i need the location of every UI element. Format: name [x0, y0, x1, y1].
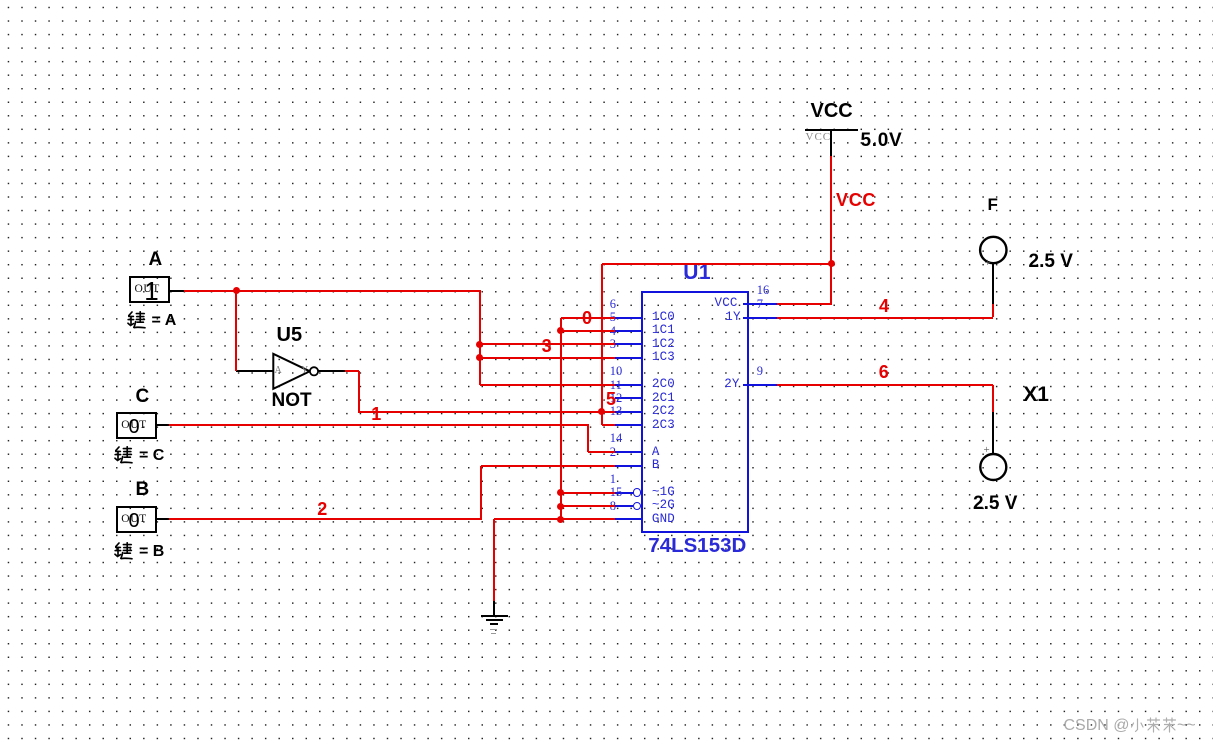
pin 12 stub (2C2)	[615, 411, 644, 413]
switch A label	[149, 250, 163, 269]
pin number 11	[610, 379, 622, 392]
U5 output pin letter Y	[301, 366, 308, 376]
wire net0: to pin ~1G	[561, 492, 615, 494]
wire net1: U5 output run	[345, 370, 360, 372]
value 5.0V	[861, 131, 903, 150]
pin label 2C1	[652, 392, 675, 405]
U5 input pin letter A	[275, 366, 282, 376]
wire net3: vertical to 2C0	[479, 291, 481, 385]
net number 2	[317, 500, 327, 518]
pin 15 stub (~2G)	[615, 505, 633, 507]
pin 14 stub (A)	[615, 451, 644, 453]
switch C output stub	[156, 424, 169, 426]
wire VCC net: top run	[602, 263, 833, 265]
pin number 1	[610, 473, 616, 486]
junction VCC net	[828, 260, 835, 267]
probe X1 label	[1023, 384, 1049, 405]
pin label ~1G	[652, 486, 675, 499]
switch C key caption (jian = C)	[114, 446, 133, 465]
wire VCC net: riser left of chip	[601, 264, 603, 426]
switch A output stub	[170, 290, 184, 292]
wire VCC net: to pin 16	[777, 303, 833, 305]
switch A key caption (jian = A)	[127, 311, 146, 330]
switch B box	[116, 506, 157, 533]
pin number 7	[757, 298, 763, 311]
pin number 13	[610, 405, 623, 418]
junction net0 at 1C1	[557, 327, 564, 334]
wire net0: ground to pin GND	[494, 518, 615, 520]
pin 10 stub (2C0)	[615, 384, 644, 386]
ground tiny net mark	[490, 629, 497, 630]
wire net3: branch down to U5 input	[235, 291, 237, 372]
pin label 1C3	[652, 351, 675, 364]
pin label 1Y	[725, 311, 740, 324]
wire VCC net: supply drop	[830, 156, 832, 304]
wire net4: 1Y to probe F	[777, 317, 993, 319]
IC U1 74LS153D body	[641, 291, 749, 534]
junction net0 at GND	[557, 516, 564, 523]
wire F drop (red)	[992, 304, 994, 317]
pin label 1C2	[652, 338, 675, 351]
junction net3 at 1C3	[476, 354, 483, 361]
VCC supply title	[811, 101, 853, 121]
pin 8 stub (GND)	[615, 518, 644, 520]
pin number 4	[610, 325, 616, 338]
pin label B	[652, 459, 660, 472]
value 2.5 V (X1)	[973, 494, 1017, 513]
junction net3 at 1C2	[476, 341, 483, 348]
VCC supply small label	[806, 132, 832, 143]
wire net1: to pin 2C2	[358, 411, 615, 413]
pin label 2C0	[652, 378, 675, 391]
net number 0	[582, 309, 592, 327]
net number 6	[879, 363, 889, 381]
pin number 8	[610, 500, 616, 513]
pin 6 stub (1C0)	[615, 317, 644, 319]
switch B digit 0	[129, 511, 140, 531]
pin number 12	[610, 392, 623, 405]
wire net1: drop to 2C2 row	[358, 371, 360, 411]
VCC supply lead	[830, 131, 832, 156]
pin 15 bubble	[633, 502, 642, 511]
wire net5: switch C run	[169, 424, 589, 426]
junction net1 at VCC riser	[598, 408, 605, 415]
switch C box	[116, 412, 157, 439]
pin 1 bubble	[633, 488, 642, 497]
pin 16 stub (VCC)	[743, 303, 777, 305]
pin label 1C0	[652, 311, 675, 324]
pin label VCC	[715, 297, 738, 310]
wire VCC net: to pin 2C3	[602, 424, 615, 426]
ground lead (red)	[493, 519, 495, 601]
U5 output stub	[318, 370, 345, 372]
inverter U5 triangle and bubble	[270, 350, 322, 394]
pin number 6	[610, 298, 616, 311]
switch A box	[129, 276, 170, 303]
probe X1 circle	[978, 452, 1009, 483]
switch C digit 0	[129, 417, 140, 437]
net number 1	[371, 405, 381, 423]
U5 input stub	[236, 370, 273, 372]
VCC supply T-bar	[805, 129, 858, 131]
net number 5	[606, 390, 616, 408]
pin 5 stub (1C1)	[615, 330, 644, 332]
watermark CSDN @xiaocaicai~~	[1064, 718, 1130, 734]
junction net0 at ~1G	[557, 489, 564, 496]
pin label 1C1	[652, 324, 675, 337]
net number 3	[542, 337, 552, 355]
probe F label	[988, 196, 998, 213]
junction net3 at NOT branch	[233, 287, 240, 294]
value label 74LS153D	[648, 536, 746, 557]
wire net3: to pin 1C3	[480, 357, 615, 359]
wire net2: switch B run	[169, 518, 482, 520]
pin number 3	[610, 338, 616, 351]
switch B key caption (jian = B)	[114, 542, 133, 561]
pin number 16	[757, 284, 770, 297]
switch C OUT text	[121, 420, 146, 432]
pin number 15	[610, 486, 623, 499]
wire net2: to pin B	[481, 465, 615, 467]
switch A OUT text	[135, 284, 160, 296]
pin label 2C3	[652, 419, 675, 432]
wire net2: riser	[480, 466, 482, 520]
wire net3: switch A to corner	[184, 290, 481, 292]
pin 4 stub (1C2)	[615, 343, 644, 345]
ground lead (black)	[493, 601, 495, 615]
probe F lead (black)	[992, 263, 994, 304]
pin number 10	[610, 365, 623, 378]
pin number 5	[610, 311, 616, 324]
pin label ~2G	[652, 499, 675, 512]
pin 7 stub (1Y)	[743, 317, 777, 319]
probe F circle	[978, 235, 1009, 266]
pin 13 stub (2C3)	[615, 424, 644, 426]
wire net6: 2Y to probe X1	[777, 384, 993, 386]
net number 4	[879, 297, 889, 315]
net label VCC	[836, 191, 876, 209]
ground symbol bars	[481, 615, 509, 617]
pin 1 stub (~1G)	[615, 492, 633, 494]
switch B OUT text	[121, 514, 146, 526]
junction net0 at ~2G	[557, 503, 564, 510]
pin 2 stub (B)	[615, 465, 644, 467]
pin number 9	[757, 365, 763, 378]
designator U1	[683, 262, 711, 283]
probe X1 lead (black)	[992, 412, 994, 453]
switch C label	[136, 387, 150, 406]
pin number 2	[610, 446, 616, 459]
probe X1 plus mark	[984, 445, 990, 456]
wire net0: to pin 1C0	[561, 317, 615, 319]
wire net0: ground riser	[560, 318, 562, 520]
wire net0: to pin ~2G	[561, 505, 615, 507]
wire X1 drop (red)	[992, 385, 994, 413]
pin number 14	[610, 432, 623, 445]
wire net3: to pin 1C2	[480, 343, 615, 345]
wire net5: to pin A	[588, 451, 615, 453]
switch A digit 1	[144, 278, 158, 304]
pin label GND	[652, 513, 675, 526]
wire net0: to pin 1C1	[561, 330, 615, 332]
pin 11 stub (2C1)	[615, 397, 644, 399]
pin label 2C2	[652, 405, 675, 418]
switch B label	[136, 480, 150, 499]
pin 9 stub (2Y)	[743, 384, 777, 386]
pin 3 stub (1C3)	[615, 357, 644, 359]
wire net5: jog down	[587, 425, 589, 452]
value 2.5 V (F)	[1029, 252, 1073, 271]
pin label 2Y	[724, 378, 739, 391]
gate type NOT	[272, 391, 312, 410]
pin label A	[652, 446, 660, 459]
switch B output stub	[156, 518, 169, 520]
probe F plus mark	[985, 258, 991, 269]
wire net3: to pin 2C0	[480, 384, 615, 386]
designator U5	[277, 325, 303, 345]
